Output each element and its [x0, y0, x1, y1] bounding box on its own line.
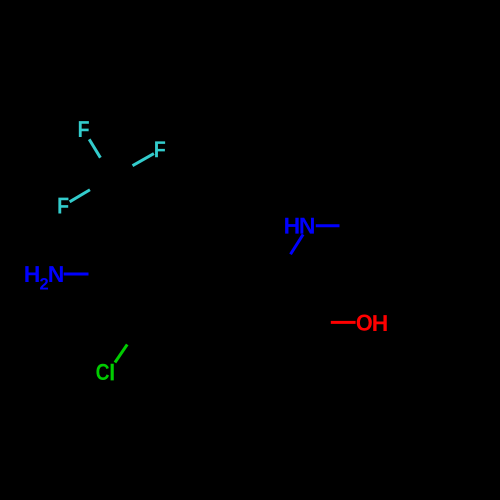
- wire: N-C bond blue half (H2N): [64, 273, 89, 276]
- amine HN label - H glyph: [285, 218, 299, 234]
- chlorine Cl label - C glyph: [96, 364, 109, 380]
- fluorine F3 label (lower-left of CF3): [58, 198, 68, 214]
- wire: N-C bond blue half (HN right): [316, 224, 340, 227]
- hydroxyl OH label - H glyph: [373, 315, 387, 331]
- wire: C-F1 bond cyan half: [89, 139, 100, 157]
- amine H2N label - N glyph: [49, 266, 63, 282]
- wire: C-F2 bond cyan half: [133, 154, 154, 166]
- amine HN label - N glyph: [300, 218, 314, 234]
- wire: N-CH2 bond blue half (HN diagonal): [291, 234, 304, 254]
- wire: O-C bond red half (OH): [331, 321, 356, 324]
- chlorine Cl label - l glyph: [111, 364, 114, 381]
- fluorine F1 label (top of CF3): [79, 121, 89, 137]
- hydroxyl OH label - O glyph: [357, 314, 372, 330]
- wire: Cl-C bond green half: [115, 345, 127, 363]
- fluorine F2 label (right of CF3): [155, 141, 165, 157]
- wire: C-F3 bond cyan half: [70, 190, 90, 202]
- amine H2N label - subscript 2: [40, 278, 48, 290]
- amine H2N label - H glyph: [25, 266, 39, 282]
